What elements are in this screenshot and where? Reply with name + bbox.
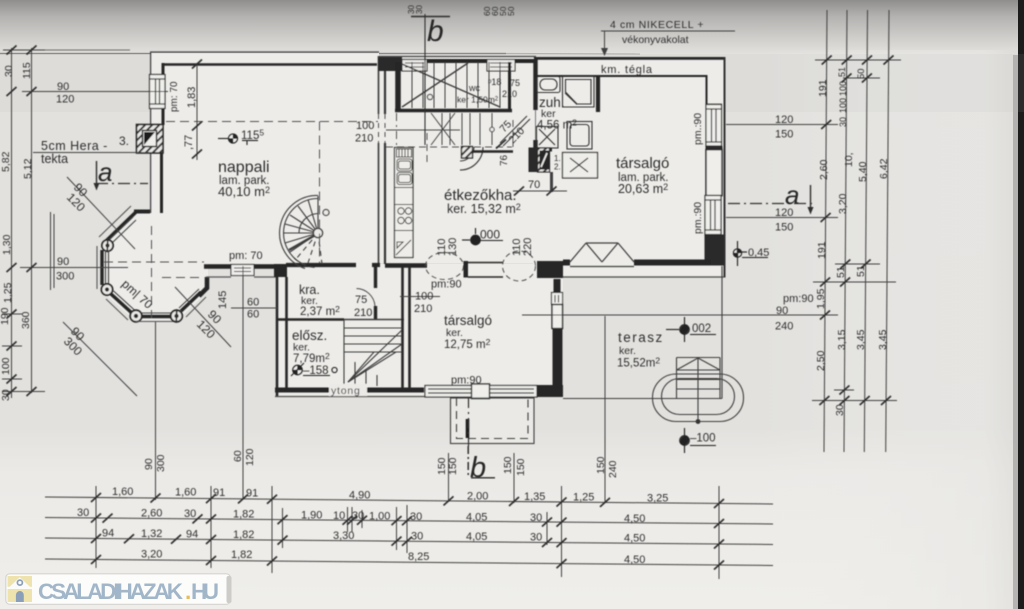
svg-text:30: 30 [415, 5, 424, 14]
stove burners [398, 208, 404, 214]
svg-text:150: 150 [515, 458, 527, 476]
stair block right wall [508, 62, 511, 110]
svg-text:30: 30 [3, 65, 15, 77]
top wall window 2 [487, 60, 515, 72]
svg-text:120: 120 [775, 114, 793, 126]
svg-text:2,00: 2,00 [467, 491, 488, 503]
marker 000 etkezo [462, 228, 503, 245]
wall stub right of post [472, 150, 513, 152]
dim 1,83 / 77 extension line [196, 64, 198, 160]
opening lines [468, 262, 503, 264]
svg-text:210: 210 [355, 133, 373, 145]
elosz stairs [344, 320, 402, 387]
svg-text:240: 240 [607, 460, 619, 478]
svg-text:20,63 m2: 20,63 m2 [618, 182, 668, 196]
svg-text:6,42: 6,42 [878, 158, 890, 179]
svg-text:94: 94 [102, 528, 114, 540]
svg-text:100: 100 [356, 120, 374, 132]
svg-text:300: 300 [56, 271, 74, 283]
west wall double [276, 266, 279, 396]
svg-text:51: 51 [855, 265, 867, 277]
svg-text:4 cm NIKECELL +: 4 cm NIKECELL + [610, 19, 704, 31]
svg-text:1,25: 1,25 [2, 282, 14, 303]
svg-text:pm:90: pm:90 [451, 375, 482, 387]
post circle [171, 310, 183, 322]
svg-text:120: 120 [56, 94, 74, 106]
svg-text:3,20: 3,20 [141, 549, 162, 561]
svg-text:3,45: 3,45 [855, 329, 867, 350]
nikecell underline + arrow [601, 30, 735, 32]
svg-text:150: 150 [502, 456, 514, 474]
chimney hatched box [137, 125, 164, 154]
bay diagonal wall NW [104, 212, 136, 243]
svg-text:190: 190 [0, 307, 11, 325]
svg-text:10,: 10, [843, 152, 855, 167]
svg-text:90: 90 [143, 458, 155, 470]
top wall window 1 [402, 60, 427, 72]
stair block left wall [395, 62, 401, 110]
top outer line center [379, 56, 536, 58]
hatched post corridor [462, 147, 473, 159]
svg-text:60: 60 [232, 450, 244, 462]
corner step to bay [134, 210, 150, 214]
wall left inner below chimney [160, 153, 163, 213]
tarsalgo south wall thick [563, 260, 570, 266]
svg-text:3,25: 3,25 [647, 493, 668, 505]
wall left outer line [150, 52, 152, 213]
junction block at tarsalgo SW [537, 261, 563, 278]
svg-text:4,50: 4,50 [624, 554, 645, 566]
svg-text:ker. 15,32 m2: ker. 15,32 m2 [447, 202, 521, 216]
section b top [411, 16, 450, 18]
svg-text:30: 30 [410, 511, 422, 523]
svg-text:40,10 m2: 40,10 m2 [218, 184, 270, 199]
svg-text:1,82: 1,82 [231, 549, 252, 561]
post circle [130, 310, 142, 322]
svg-text:50: 50 [506, 6, 516, 16]
svg-text:1,00: 1,00 [369, 511, 390, 523]
svg-text:1,82: 1,82 [233, 529, 254, 541]
diagonal leader 90/120 SE of bay [175, 287, 231, 347]
svg-text:220: 220 [522, 238, 534, 256]
svg-text:1,32: 1,32 [141, 528, 162, 540]
post circle [101, 284, 112, 295]
wire top outer line nappali [150, 51, 379, 53]
svg-text:30: 30 [530, 512, 542, 524]
svg-text:60: 60 [247, 309, 259, 321]
terasz east edge [721, 266, 723, 399]
corner block [274, 264, 287, 277]
svg-text:70: 70 [528, 179, 540, 191]
svg-text:ker.: ker. [446, 327, 463, 339]
chain B [45, 518, 773, 525]
svg-text:1,25: 1,25 [573, 492, 594, 504]
75/210 door zuh diagonal labels [499, 123, 516, 140]
counter divider lines [395, 187, 413, 189]
svg-text:b: b [470, 452, 486, 484]
svg-text:30: 30 [834, 404, 846, 416]
svg-text:8,25: 8,25 [408, 551, 429, 563]
marker -158 elosz [291, 363, 337, 376]
svg-text:wc: wc [468, 83, 480, 93]
svg-text:100: 100 [838, 98, 848, 113]
east wall outer line [724, 57, 726, 278]
svg-text:150: 150 [447, 457, 459, 475]
svg-text:pm:90: pm:90 [431, 279, 462, 291]
marker 002 terasz [666, 317, 716, 342]
bay south horizontal window [142, 315, 171, 318]
south wall right block [537, 385, 563, 397]
svg-text:60: 60 [247, 297, 259, 309]
svg-text:2,60: 2,60 [818, 159, 830, 180]
svg-text:nappali: nappali [218, 159, 270, 176]
svg-text:vékonyvakolat: vékonyvakolat [622, 34, 689, 46]
svg-text:120: 120 [244, 448, 256, 466]
wall left inner below window [162, 109, 165, 126]
section a right [728, 203, 812, 205]
svg-text:30: 30 [0, 389, 12, 401]
chain D [45, 559, 773, 566]
svg-text:130: 130 [447, 238, 459, 256]
svg-text:pm:90: pm:90 [783, 293, 814, 305]
svg-text:75: 75 [510, 78, 520, 88]
post between arches [464, 261, 469, 278]
nappali east wall double line [378, 56, 380, 114]
svg-text:210: 210 [414, 303, 432, 315]
svg-text:ytong: ytong [331, 385, 361, 397]
window pm:90 lower [705, 196, 721, 235]
duct hatched blocks [529, 148, 538, 173]
svg-text:002: 002 [692, 323, 711, 335]
railing curves [460, 147, 483, 170]
kitchen fridge coils [395, 149, 413, 255]
svg-text:3,30: 3,30 [333, 530, 354, 542]
svg-text:terasz: terasz [618, 330, 664, 345]
french door X symbol [570, 243, 634, 267]
svg-text:30: 30 [77, 507, 89, 519]
marker -045 right [733, 241, 768, 266]
bay window glazing NW diagonal [109, 217, 133, 240]
south window big [425, 384, 537, 399]
oval steps [653, 374, 744, 422]
section b bottom [468, 398, 470, 446]
svg-text:b: b [427, 15, 444, 48]
svg-text:5cm Hera -: 5cm Hera - [41, 139, 108, 153]
svg-text:ker: ker [541, 108, 556, 120]
svg-text:91: 91 [213, 487, 225, 499]
svg-text:2,60: 2,60 [141, 508, 162, 520]
marker -100 [680, 428, 716, 453]
kitchen sink boxes [397, 159, 412, 171]
stair diagonals [402, 64, 500, 107]
svg-text:5,12: 5,12 [22, 158, 34, 179]
lower tarsalgo east wall [554, 279, 561, 293]
dim line 60/60 at bay [231, 307, 277, 309]
junction block top center [378, 57, 402, 71]
hera tekta underline [33, 152, 150, 154]
svg-text:4,50: 4,50 [624, 533, 645, 545]
svg-text:társalgó: társalgó [616, 155, 669, 172]
svg-text:3,15: 3,15 [836, 329, 848, 350]
svg-text:CSALADIHAZAK: CSALADIHAZAK [38, 579, 184, 604]
svg-text:50: 50 [856, 68, 867, 79]
svg-text:76: 76 [499, 154, 510, 166]
stair treads [412, 62, 500, 108]
door gap, wall resumes [372, 263, 380, 267]
kitchen block south wall [385, 263, 427, 268]
svg-text:3,45: 3,45 [877, 329, 889, 350]
svg-text:360: 360 [20, 311, 32, 329]
diagonal leader 90/120 NW [67, 177, 135, 249]
kra east wall (door 75) [374, 267, 377, 288]
bay diagonal SE window [181, 292, 201, 311]
diagonal leader 90/300 SW [63, 322, 137, 396]
svg-text:HU: HU [191, 579, 219, 604]
door 75/210 diagonal (wc door) [500, 116, 527, 143]
svg-text:191: 191 [817, 79, 829, 97]
svg-text:3.: 3. [119, 134, 129, 148]
marker +115.5 nappali [218, 134, 258, 145]
zuh shower corner [563, 77, 595, 108]
svg-text:30: 30 [838, 117, 848, 127]
bay west extension lines [50, 212, 52, 290]
bay diagonal SW window [111, 294, 133, 314]
wall left inner upper [162, 63, 165, 75]
dashed construction lines nappali [104, 114, 385, 318]
svg-text:a: a [98, 157, 112, 187]
wall window to corner [254, 264, 276, 269]
top wall band black [427, 59, 487, 63]
svg-text:150: 150 [775, 222, 793, 234]
elosz east wall double [401, 267, 404, 390]
svg-text:90: 90 [776, 305, 788, 317]
svg-text:,77: ,77 [183, 135, 195, 150]
dim 100 kitchen [400, 296, 440, 298]
svg-text:191: 191 [816, 241, 828, 259]
svg-text:tekta: tekta [41, 152, 68, 166]
svg-text:30: 30 [411, 531, 423, 543]
window pm:90 upper [706, 105, 722, 147]
svg-text:30: 30 [184, 508, 196, 520]
svg-text:ᵖ18: ᵖ18 [488, 77, 501, 87]
east wall inner line upper [706, 75, 708, 106]
svg-text:100: 100 [415, 291, 433, 303]
lower stair treads below wall [431, 113, 492, 145]
svg-text:150: 150 [595, 456, 607, 474]
svg-text:150: 150 [775, 129, 793, 141]
svg-text:94: 94 [186, 529, 198, 541]
kitchen counter outline [395, 148, 414, 258]
dash lines below stair [396, 113, 398, 160]
appliance X box [563, 153, 598, 179]
svg-text:pm.:90: pm.:90 [692, 202, 704, 234]
terasz steps [676, 358, 678, 399]
svg-text:ker.: ker. [293, 342, 310, 354]
bay SE corner block [199, 277, 207, 296]
svg-text:1,30: 1,30 [1, 234, 13, 255]
svg-text:12,75 m2: 12,75 m2 [444, 337, 491, 351]
svg-text:7,79m2: 7,79m2 [293, 351, 330, 365]
top wall outer heavy line [534, 57, 725, 60]
dashed line corridor [386, 146, 512, 148]
window W1 pm:70 left wall [150, 75, 166, 109]
svg-text:1,60: 1,60 [112, 486, 133, 498]
ytong [329, 384, 367, 397]
zuh / tarsalgo divider wall [596, 75, 600, 112]
terasz south edge [563, 398, 722, 400]
svg-text:240: 240 [775, 321, 793, 333]
svg-text:210: 210 [354, 307, 372, 319]
rotated dim texts [0, 5, 890, 478]
svg-text:5,40: 5,40 [857, 161, 869, 182]
svg-text:4,05: 4,05 [466, 531, 487, 543]
east wall lower black [705, 235, 725, 266]
svg-text:300: 300 [155, 454, 167, 472]
right edge dark strip [1018, 0, 1024, 609]
chain A [45, 497, 773, 504]
wall top inner nappali [162, 63, 377, 66]
svg-text:30: 30 [530, 532, 542, 544]
svg-text:ker.: ker. [619, 345, 636, 357]
arch opening left dashed [426, 253, 464, 280]
arch opening right dashed [503, 251, 536, 281]
east wall white pillar [706, 150, 722, 196]
building interior light fills [101, 53, 725, 444]
svg-text:15,52m2: 15,52m2 [617, 356, 660, 370]
svg-text:30: 30 [352, 510, 364, 522]
svg-text:2.: 2. [554, 163, 561, 172]
svg-text:pm.:90: pm.:90 [692, 113, 704, 145]
zuh wc [537, 127, 559, 149]
chain C [45, 538, 773, 545]
svg-text:3,20: 3,20 [837, 193, 849, 214]
bay west vertical window [100, 250, 103, 285]
south wall thick with ytong [275, 388, 424, 393]
svg-text:1,90: 1,90 [301, 510, 322, 522]
wall segment corner to window [204, 264, 231, 269]
svg-text:100: 100 [0, 357, 12, 375]
top wall inner line [536, 75, 707, 77]
kra/elosz divider [278, 318, 344, 320]
svg-text:ker 1,50m2: ker 1,50m2 [457, 95, 499, 105]
svg-text:51: 51 [835, 266, 847, 278]
svg-text:115: 115 [21, 62, 33, 79]
svg-text:2,37 m2: 2,37 m2 [300, 304, 340, 318]
svg-text:000: 000 [480, 228, 500, 242]
svg-text:–100: –100 [690, 433, 716, 445]
svg-text:4,05: 4,05 [466, 512, 487, 524]
section letters [98, 15, 799, 484]
svg-text:pm: 70: pm: 70 [229, 250, 263, 262]
svg-text:5,82: 5,82 [0, 151, 12, 172]
svg-text:km. tégla: km. tégla [601, 64, 653, 76]
zuh boiler box [567, 122, 592, 150]
door leaf line [386, 129, 460, 131]
section a left [96, 161, 98, 183]
scan fold line [0, 53, 506, 55]
svg-text:pm: 70: pm: 70 [169, 81, 180, 112]
extension verticals [95, 486, 97, 568]
svg-text:társalgó: társalgó [444, 313, 492, 328]
dim 70 zuh [513, 190, 567, 192]
svg-text:4,90: 4,90 [349, 490, 370, 502]
svg-text:75: 75 [355, 294, 367, 306]
svg-text:0,45: 0,45 [748, 247, 769, 259]
svg-text:1,35: 1,35 [524, 491, 545, 503]
svg-text:145: 145 [217, 291, 229, 309]
svg-text:90: 90 [57, 81, 69, 93]
east wall black cap [706, 146, 723, 150]
zuh south wall black [533, 148, 552, 152]
dishwasher diagonal [396, 240, 411, 255]
svg-text:–158: –158 [303, 365, 329, 377]
svg-text:90: 90 [57, 256, 69, 268]
svg-text:10: 10 [333, 510, 345, 522]
svg-text:1,83: 1,83 [186, 87, 198, 108]
svg-text:4,56 m2: 4,56 m2 [537, 118, 577, 132]
post circle [102, 240, 113, 251]
svg-text:91: 91 [246, 488, 258, 500]
svg-text:51: 51 [837, 67, 847, 77]
svg-text:100: 100 [838, 81, 848, 96]
zuh west wall [533, 59, 537, 110]
zuh sink [537, 77, 595, 150]
stair block bottom wall [395, 109, 512, 112]
svg-text:2,50: 2,50 [815, 350, 827, 371]
svg-text:a: a [785, 180, 799, 210]
window pm:70 south [231, 265, 254, 276]
south wall outer thin [563, 276, 724, 278]
svg-text:1,82: 1,82 [233, 509, 254, 521]
wall interior nappali-kra to door [286, 263, 356, 267]
svg-text:4,50: 4,50 [624, 513, 645, 525]
svg-text:1,60: 1,60 [175, 487, 196, 499]
